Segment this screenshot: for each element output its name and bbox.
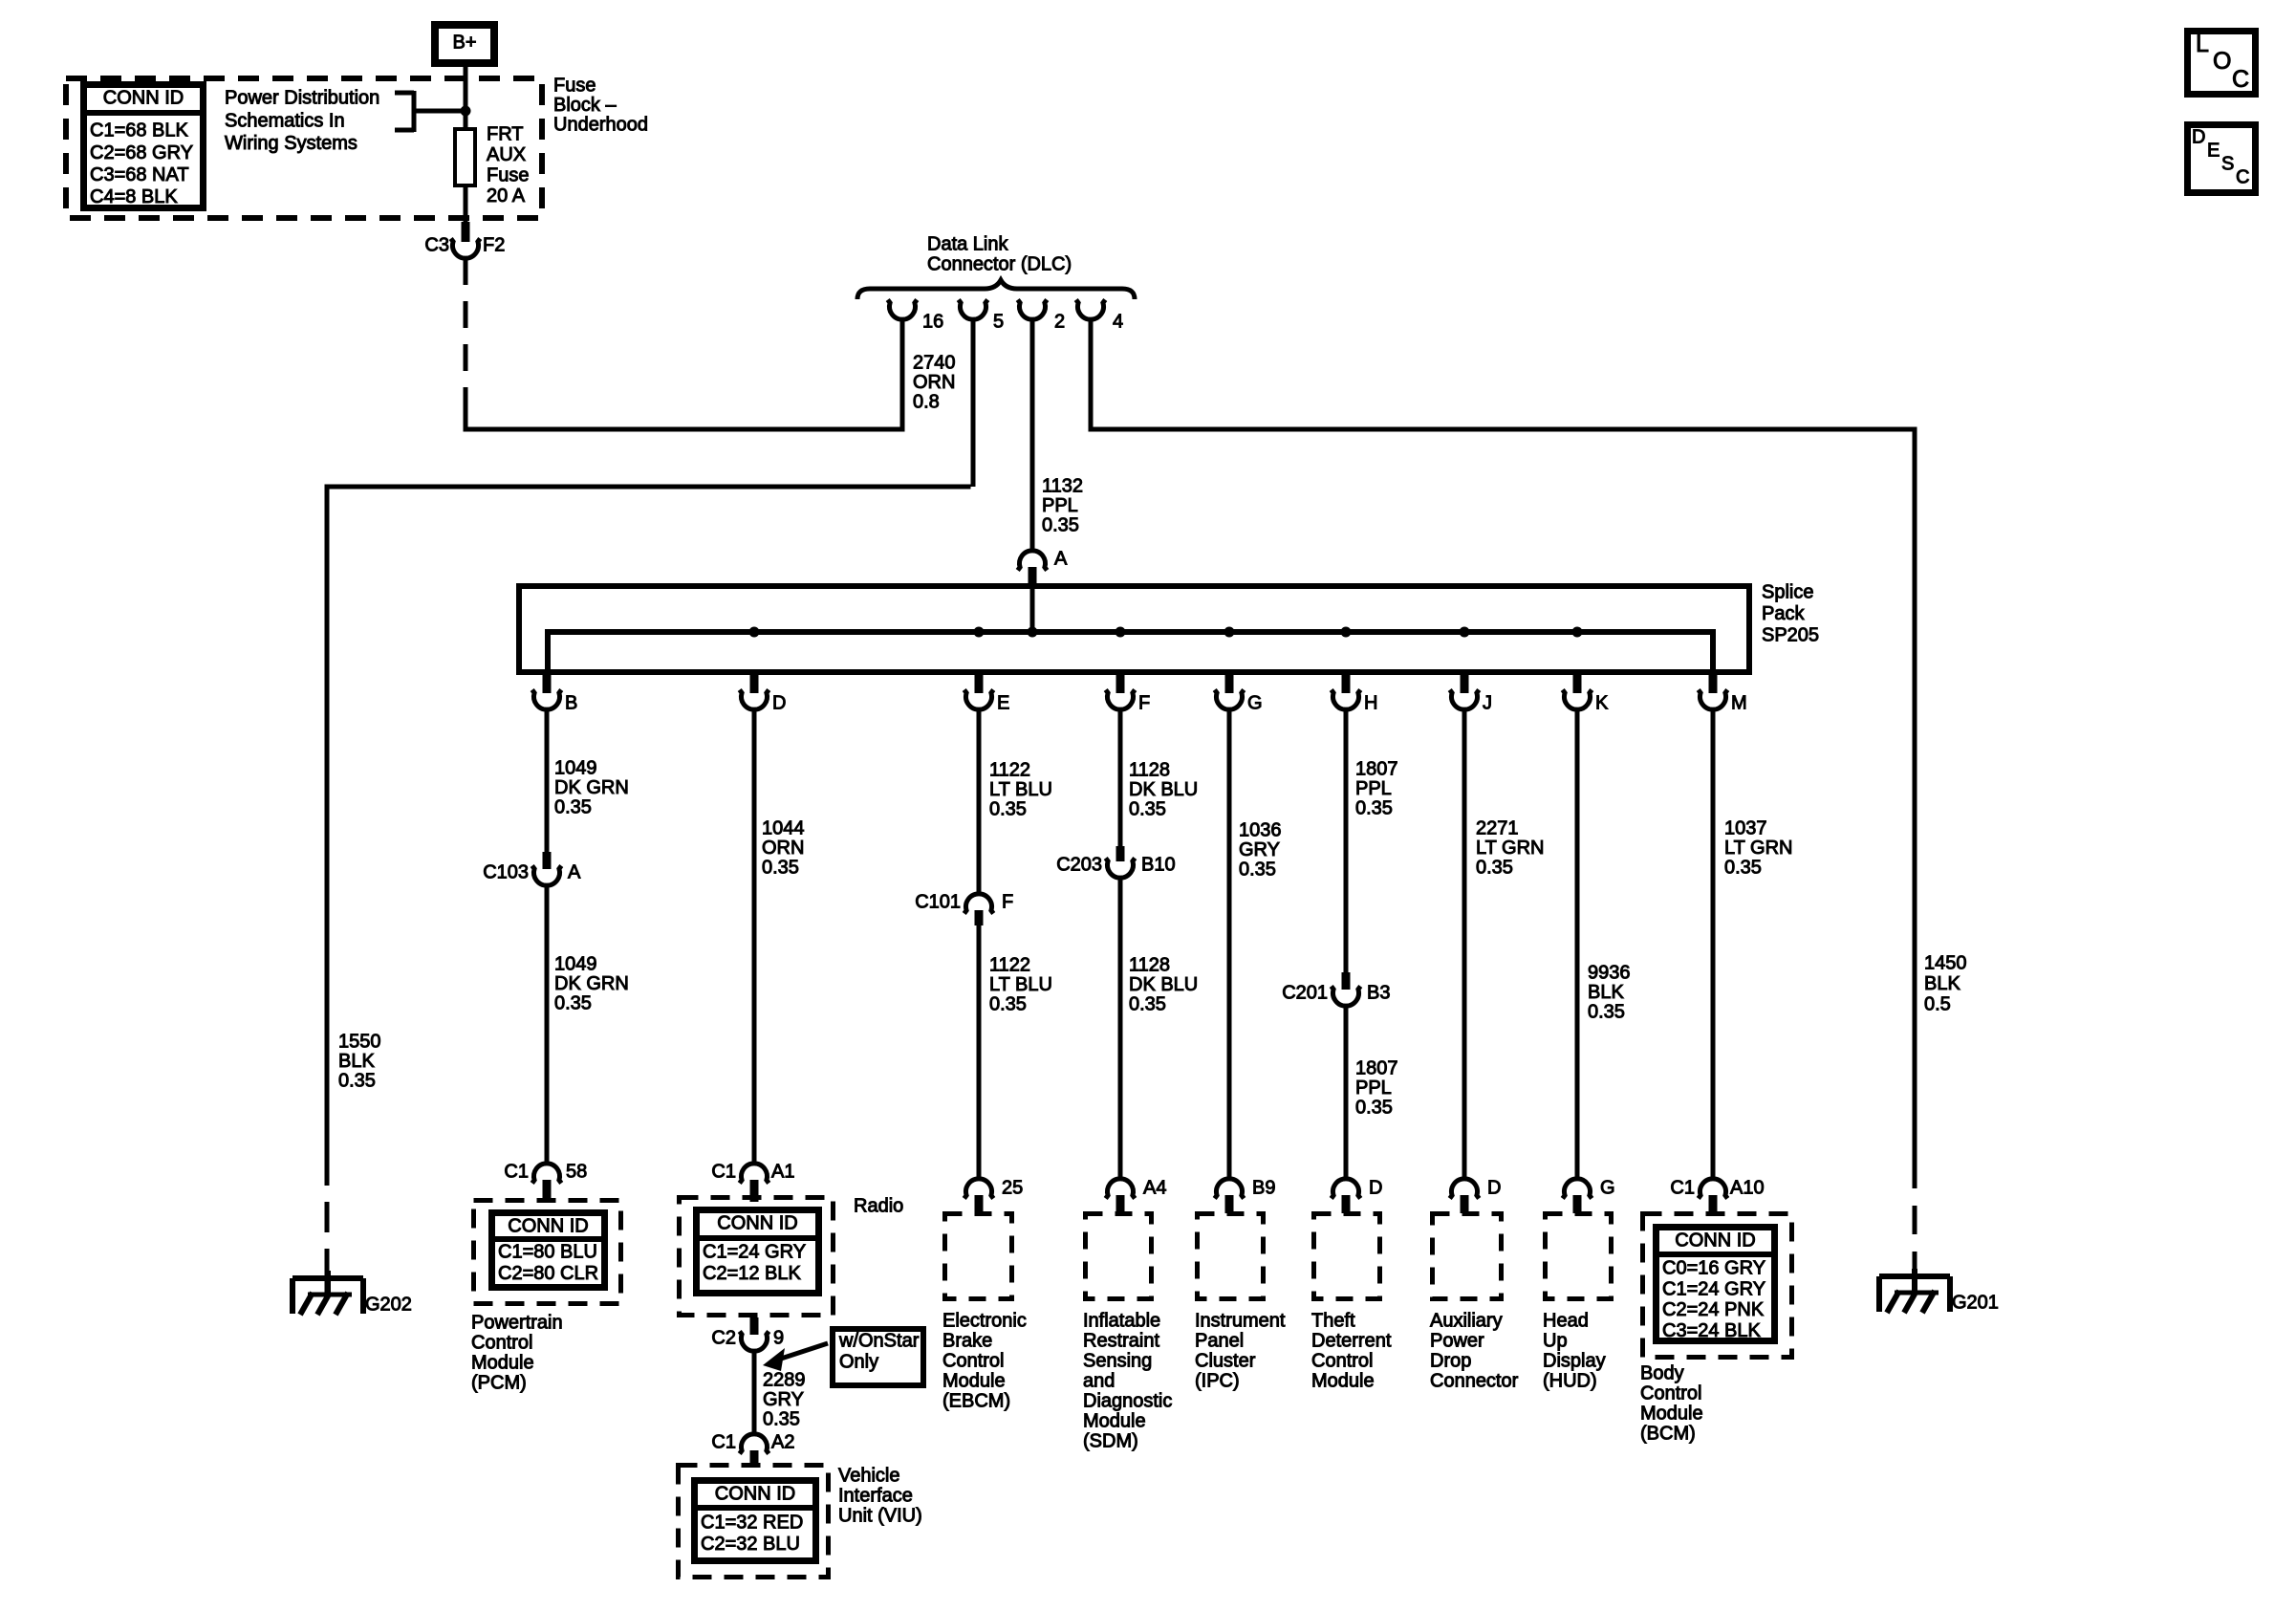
svg-text:Inflatable: Inflatable <box>1083 1311 1160 1332</box>
ground G202 <box>292 1271 412 1316</box>
label pin B9 <box>1252 1178 1275 1199</box>
svg-text:C: C <box>2232 66 2249 93</box>
svg-text:1049: 1049 <box>554 954 597 975</box>
wire 1807 PPL lower (H) <box>1344 1006 1349 1181</box>
svg-text:0.35: 0.35 <box>762 858 799 879</box>
splice pin G <box>1215 672 1245 709</box>
svg-text:H: H <box>1364 693 1377 714</box>
legend box DESC <box>2188 125 2256 193</box>
svg-text:C1: C1 <box>711 1432 736 1453</box>
wire 9936 BLK (K) <box>1575 709 1580 1181</box>
svg-text:F: F <box>1002 892 1013 913</box>
label C203 <box>1056 855 1102 876</box>
connector C1 58 pin at PCM <box>543 1180 552 1202</box>
svg-text:DK BLU: DK BLU <box>1129 974 1198 995</box>
svg-text:Vehicle: Vehicle <box>838 1466 900 1487</box>
label Electronic Brake Control Module (EBCM) <box>942 1311 1027 1412</box>
svg-text:w/OnStar: w/OnStar <box>838 1331 920 1352</box>
svg-text:1550: 1550 <box>338 1032 381 1053</box>
label 1550 BLK 0.35 <box>338 1032 381 1092</box>
svg-text:K: K <box>1595 693 1609 714</box>
svg-text:SP205: SP205 <box>1762 625 1819 646</box>
svg-text:0.35: 0.35 <box>1588 1002 1625 1023</box>
svg-text:B10: B10 <box>1141 855 1176 876</box>
connector C1 A1 cup at Radio <box>740 1164 769 1184</box>
label pin D <box>1369 1178 1382 1199</box>
fuse block underhood dashed enclosure <box>66 78 542 218</box>
svg-text:0.8: 0.8 <box>913 392 940 413</box>
label pin D <box>1487 1178 1501 1199</box>
label C1 at PCM <box>504 1162 529 1183</box>
connector A cup at splice pack <box>1018 551 1048 571</box>
svg-text:A4: A4 <box>1143 1178 1166 1199</box>
CONN ID table BCM <box>1656 1228 1775 1342</box>
module Head Up Display (HUD) dashed box <box>1546 1214 1612 1299</box>
ground G201 <box>1879 1269 1999 1314</box>
svg-text:Diagnostic: Diagnostic <box>1083 1391 1172 1412</box>
svg-text:9936: 9936 <box>1588 963 1631 984</box>
connector A pin <box>1029 567 1037 588</box>
svg-text:Radio: Radio <box>854 1196 903 1217</box>
svg-text:Head: Head <box>1543 1311 1589 1332</box>
svg-text:Theft: Theft <box>1311 1311 1355 1332</box>
connector C2 9 cup at Radio <box>740 1332 769 1352</box>
svg-text:D: D <box>772 693 786 714</box>
svg-text:L: L <box>2196 31 2209 57</box>
svg-text:Wiring Systems: Wiring Systems <box>225 133 357 154</box>
label B3 <box>1367 983 1390 1004</box>
svg-text:1128: 1128 <box>1129 760 1170 781</box>
svg-text:1807: 1807 <box>1355 759 1398 780</box>
svg-text:Cluster: Cluster <box>1195 1351 1256 1372</box>
note box w/OnStar Only <box>833 1329 923 1385</box>
label A at C103 <box>568 862 581 883</box>
connector C101 F cup <box>964 894 994 914</box>
label Fuse Block - Underhood <box>553 76 648 136</box>
svg-text:G201: G201 <box>1952 1293 1999 1314</box>
module VIU dashed box <box>679 1466 829 1578</box>
label 1128 DK BLU 0.35 upper <box>1129 760 1198 820</box>
svg-text:Interface: Interface <box>838 1486 913 1507</box>
svg-text:0.35: 0.35 <box>554 993 592 1014</box>
label Splice Pack SP205 <box>1762 582 1819 646</box>
svg-text:Module: Module <box>1083 1411 1146 1432</box>
svg-text:1037: 1037 <box>1724 818 1767 839</box>
label C103 <box>483 862 529 883</box>
label 1128 DK BLU 0.35 lower <box>1129 955 1198 1015</box>
svg-text:4: 4 <box>1113 312 1123 333</box>
wire 1037 LT GRN (M) <box>1711 709 1716 1181</box>
svg-text:Power: Power <box>1430 1331 1484 1352</box>
svg-text:20 A: 20 A <box>487 185 526 207</box>
svg-text:C4=8 BLK: C4=8 BLK <box>90 186 178 207</box>
wire 1049 DK GRN lower (B) <box>545 885 550 1165</box>
svg-text:Control: Control <box>942 1351 1004 1372</box>
svg-text:C1: C1 <box>711 1162 736 1183</box>
svg-text:S: S <box>2221 154 2234 175</box>
svg-text:A1: A1 <box>771 1162 794 1183</box>
label A1 at Radio <box>771 1162 794 1183</box>
splice pin F <box>1106 672 1136 709</box>
wire B+ to fuse <box>464 67 468 127</box>
wire 1128 DK BLU lower (F) <box>1118 878 1123 1181</box>
label splice pin G <box>1247 693 1263 714</box>
legend box LOC <box>2188 31 2256 94</box>
svg-text:1049: 1049 <box>554 758 597 779</box>
wire 1036 GRY (G) <box>1227 709 1232 1181</box>
svg-text:CONN ID: CONN ID <box>1675 1230 1755 1252</box>
svg-text:CONN ID: CONN ID <box>715 1484 795 1505</box>
module PCM dashed box <box>474 1201 621 1304</box>
svg-text:Panel: Panel <box>1195 1331 1244 1352</box>
label 1049 DK GRN 0.35 lower <box>554 954 629 1014</box>
svg-text:25: 25 <box>1002 1178 1023 1199</box>
wire fuse to connector C3 <box>464 187 468 224</box>
svg-text:B+: B+ <box>452 33 476 54</box>
DLC pin 16 cup <box>888 300 918 320</box>
DLC pin 4 cup <box>1076 300 1106 320</box>
svg-text:C1=68 BLK: C1=68 BLK <box>90 120 189 142</box>
splice bus SP205 <box>548 632 1713 675</box>
connector C203 B10 pin <box>1116 846 1125 861</box>
label F2 <box>483 235 505 256</box>
connector pin D cup at Auxiliary Power Drop Connector <box>1450 1179 1480 1199</box>
svg-text:Control: Control <box>471 1333 532 1354</box>
svg-text:Schematics In: Schematics In <box>225 110 345 131</box>
connector C1 A10 pin at BCM <box>1709 1195 1718 1213</box>
splice pin B <box>532 672 562 709</box>
label C2 at Radio <box>711 1328 736 1349</box>
svg-text:Powertrain: Powertrain <box>471 1313 563 1334</box>
svg-text:E: E <box>997 693 1009 714</box>
svg-text:B: B <box>565 693 577 714</box>
label splice pin F <box>1138 693 1150 714</box>
connector C1 A10 cup at BCM <box>1699 1179 1728 1199</box>
svg-text:(BCM): (BCM) <box>1640 1424 1696 1445</box>
svg-text:Power Distribution: Power Distribution <box>225 88 379 109</box>
wire 2740 ORN to DLC pin 16 <box>464 319 905 431</box>
svg-text:CONN ID: CONN ID <box>508 1216 588 1237</box>
svg-text:LT GRN: LT GRN <box>1476 838 1545 859</box>
label Data Link Connector (DLC) <box>927 234 1072 275</box>
label splice pin H <box>1364 693 1377 714</box>
svg-text:1128: 1128 <box>1129 955 1170 976</box>
svg-text:PPL: PPL <box>1042 495 1078 516</box>
connector C1 A2 pin at VIU <box>750 1450 759 1467</box>
wire 2289 GRY <box>752 1351 757 1436</box>
label Head Up Display (HUD) <box>1543 1311 1606 1392</box>
svg-text:Block –: Block – <box>553 95 617 116</box>
svg-text:C3=24 BLK: C3=24 BLK <box>1662 1320 1762 1341</box>
label 2289 GRY 0.35 <box>763 1370 806 1430</box>
label C1 at BCM <box>1670 1178 1695 1199</box>
svg-text:2289: 2289 <box>763 1370 806 1391</box>
svg-text:DK GRN: DK GRN <box>554 973 629 994</box>
connector C3 F2 pin <box>462 222 470 242</box>
svg-text:Pack: Pack <box>1762 603 1805 624</box>
label Powertrain Control Module (PCM) <box>471 1313 563 1394</box>
svg-text:G: G <box>1600 1178 1615 1199</box>
wire 1450 BLK dashed to G201 <box>1913 1160 1917 1293</box>
label splice pin D <box>772 693 786 714</box>
label 1122 LT BLU 0.35 lower <box>989 955 1052 1015</box>
svg-text:(EBCM): (EBCM) <box>942 1391 1010 1412</box>
connector pin D stub <box>1461 1195 1469 1213</box>
svg-text:B9: B9 <box>1252 1178 1275 1199</box>
label A <box>1054 549 1068 570</box>
svg-text:C201: C201 <box>1282 983 1328 1004</box>
connector C3 F2 cup <box>451 239 481 259</box>
svg-text:Body: Body <box>1640 1363 1684 1384</box>
label A2 at VIU <box>771 1432 794 1453</box>
splice pin M <box>1699 672 1728 709</box>
svg-text:Unit (VIU): Unit (VIU) <box>838 1506 922 1527</box>
junction dot splice H <box>1341 627 1352 638</box>
svg-text:(IPC): (IPC) <box>1195 1371 1240 1392</box>
label pin 4 <box>1113 312 1123 333</box>
label 9 at Radio <box>773 1328 784 1349</box>
label pin 25 <box>1002 1178 1023 1199</box>
svg-text:0.35: 0.35 <box>1476 858 1513 879</box>
svg-text:0.35: 0.35 <box>338 1071 376 1092</box>
module BCM dashed box <box>1643 1214 1792 1358</box>
svg-text:BLK: BLK <box>1924 973 1960 994</box>
svg-text:Splice: Splice <box>1762 582 1813 603</box>
svg-text:A2: A2 <box>771 1432 794 1453</box>
connector pin A4 cup at Inflatable Restraint Sensing and Diagnostic Module (SDM) <box>1106 1179 1136 1199</box>
label 2740 ORN 0.8 <box>913 353 956 413</box>
connector pin G cup at Head Up Display (HUD) <box>1563 1179 1592 1199</box>
connector pin 25 cup at Electronic Brake Control Module (EBCM) <box>964 1179 994 1199</box>
svg-text:Underhood: Underhood <box>553 115 648 136</box>
svg-text:Module: Module <box>942 1371 1006 1392</box>
svg-text:2271: 2271 <box>1476 818 1519 839</box>
label 1450 BLK 0.5 <box>1924 953 1967 1015</box>
svg-text:CONN ID: CONN ID <box>717 1213 797 1234</box>
svg-text:1132: 1132 <box>1042 476 1083 497</box>
svg-text:Connector (DLC): Connector (DLC) <box>927 254 1072 275</box>
svg-text:and: and <box>1083 1371 1115 1392</box>
svg-text:0.35: 0.35 <box>554 797 592 818</box>
svg-text:Control: Control <box>1640 1383 1701 1404</box>
svg-text:Auxiliary: Auxiliary <box>1430 1311 1503 1332</box>
svg-text:A: A <box>568 862 581 883</box>
label C201 <box>1282 983 1328 1004</box>
splice pack SP205 box <box>519 586 1749 672</box>
wire DLC pin 2 1132 PPL <box>1030 319 1035 553</box>
label FRT AUX Fuse 20 A <box>487 124 529 207</box>
svg-text:BLK: BLK <box>1588 982 1624 1003</box>
svg-text:Electronic: Electronic <box>942 1311 1027 1332</box>
svg-text:C1=24 GRY: C1=24 GRY <box>1662 1278 1765 1299</box>
connector C101 F pin <box>975 910 984 925</box>
label 1122 LT BLU 0.35 upper <box>989 760 1052 820</box>
svg-text:Display: Display <box>1543 1351 1606 1372</box>
label pin G <box>1600 1178 1615 1199</box>
svg-text:1036: 1036 <box>1239 820 1282 841</box>
junction dot splice F <box>1116 627 1126 638</box>
svg-text:LT BLU: LT BLU <box>989 779 1052 800</box>
svg-text:Restraint: Restraint <box>1083 1331 1159 1352</box>
svg-text:D: D <box>1487 1178 1501 1199</box>
svg-text:LT GRN: LT GRN <box>1724 838 1793 859</box>
svg-text:C1=32 RED: C1=32 RED <box>701 1513 803 1534</box>
svg-text:1122: 1122 <box>989 760 1030 781</box>
connector C1 A1 pin at Radio <box>750 1180 759 1202</box>
svg-text:C2: C2 <box>711 1328 736 1349</box>
svg-text:C2=12 BLK: C2=12 BLK <box>703 1263 802 1284</box>
label splice pin E <box>997 693 1009 714</box>
svg-text:1807: 1807 <box>1355 1058 1398 1079</box>
CONN ID table PCM <box>491 1213 605 1288</box>
svg-text:ORN: ORN <box>913 372 955 393</box>
label A10 at BCM <box>1730 1178 1765 1199</box>
label 2271 LT GRN 0.35 <box>1476 818 1545 879</box>
svg-text:C2=24 PNK: C2=24 PNK <box>1662 1299 1765 1320</box>
svg-text:C103: C103 <box>483 862 529 883</box>
label 1037 LT GRN 0.35 <box>1724 818 1793 879</box>
label 1807 PPL 0.35 lower <box>1355 1058 1398 1119</box>
svg-text:C1: C1 <box>1670 1178 1695 1199</box>
module Radio dashed box <box>680 1198 834 1316</box>
svg-text:C1=24 GRY: C1=24 GRY <box>703 1242 806 1263</box>
svg-text:C1=80 BLU: C1=80 BLU <box>498 1242 597 1263</box>
wire 1807 PPL upper (H) <box>1344 709 1349 974</box>
svg-text:Brake: Brake <box>942 1331 992 1352</box>
svg-text:58: 58 <box>566 1162 587 1183</box>
svg-text:E: E <box>2207 141 2220 162</box>
svg-text:C0=16 GRY: C0=16 GRY <box>1662 1258 1765 1279</box>
module Electronic Brake Control Module (EBCM) dashed box <box>945 1214 1012 1299</box>
svg-text:PPL: PPL <box>1355 778 1392 799</box>
connector pin D stub <box>1342 1195 1351 1213</box>
svg-text:F: F <box>1138 693 1150 714</box>
svg-text:F2: F2 <box>483 235 505 256</box>
label 9936 BLK 0.35 <box>1588 963 1631 1023</box>
connector pin B9 stub <box>1225 1195 1234 1213</box>
svg-text:0.35: 0.35 <box>989 994 1027 1015</box>
svg-text:DK BLU: DK BLU <box>1129 779 1198 800</box>
svg-text:0.35: 0.35 <box>1129 994 1166 1015</box>
note Power Distribution Schematics In Wiring Systems <box>225 88 379 154</box>
label B10 <box>1141 855 1176 876</box>
arrow w/OnStar to wire <box>763 1343 828 1371</box>
svg-text:0.35: 0.35 <box>1355 798 1393 819</box>
wire 1550 BLK dashed to G202 <box>325 1155 330 1295</box>
svg-text:16: 16 <box>922 312 943 333</box>
label Theft Deterrent Control Module <box>1311 1311 1392 1392</box>
connector pin A4 stub <box>1116 1195 1125 1213</box>
junction dot splice A <box>1028 627 1038 638</box>
label splice pin K <box>1595 693 1609 714</box>
svg-text:0.35: 0.35 <box>989 799 1027 820</box>
svg-text:A10: A10 <box>1730 1178 1765 1199</box>
svg-text:Data Link: Data Link <box>927 234 1008 255</box>
label pin 16 <box>922 312 943 333</box>
brace DLC <box>857 280 1135 299</box>
svg-text:G202: G202 <box>365 1295 412 1316</box>
label 1049 DK GRN 0.35 upper <box>554 758 629 818</box>
label pin A4 <box>1143 1178 1166 1199</box>
B+ battery positive terminal box <box>435 25 494 63</box>
label Instrument Panel Cluster (IPC) <box>1195 1311 1286 1392</box>
svg-text:0.35: 0.35 <box>763 1409 800 1430</box>
connector C201 B3 pin <box>1342 972 1351 990</box>
wire 1044 ORN (D) <box>752 709 757 1165</box>
wire 1122 LT BLU upper (E) <box>977 709 982 895</box>
label C1 at VIU <box>711 1432 736 1453</box>
svg-text:BLK: BLK <box>338 1051 375 1072</box>
svg-text:Deterrent: Deterrent <box>1311 1331 1392 1352</box>
svg-text:D: D <box>1369 1178 1382 1199</box>
DLC pin 5 cup <box>959 300 988 320</box>
svg-text:C1: C1 <box>504 1162 529 1183</box>
svg-text:Module: Module <box>471 1353 534 1374</box>
bracket from note to B+ feed <box>395 91 466 132</box>
connector C103 A pin <box>543 852 552 869</box>
label pin 5 <box>993 312 1004 333</box>
label pin 2 <box>1054 312 1065 333</box>
label 1807 PPL 0.35 upper <box>1355 759 1398 819</box>
svg-text:C3=68 NAT: C3=68 NAT <box>90 164 189 185</box>
svg-text:Control: Control <box>1311 1351 1373 1372</box>
svg-text:A: A <box>1054 549 1068 570</box>
svg-text:CONN ID: CONN ID <box>103 88 184 109</box>
svg-text:PPL: PPL <box>1355 1078 1392 1099</box>
svg-text:5: 5 <box>993 312 1004 333</box>
wire 1128 DK BLU upper (F) <box>1118 709 1123 848</box>
wire 2271 LT GRN (J) <box>1462 709 1467 1181</box>
junction dot on B+ feed <box>461 106 471 117</box>
wire A pin to bus <box>1030 588 1035 632</box>
svg-text:Up: Up <box>1543 1331 1568 1352</box>
connector C201 B3 cup <box>1332 987 1361 1007</box>
svg-text:0.35: 0.35 <box>1129 799 1166 820</box>
wire 1049 DK GRN upper (B) <box>545 709 550 854</box>
CONN ID table VIU <box>694 1481 816 1561</box>
svg-text:2: 2 <box>1054 312 1065 333</box>
connector pin B9 cup at Instrument Panel Cluster (IPC) <box>1215 1179 1245 1199</box>
svg-text:C3: C3 <box>424 235 449 256</box>
svg-text:J: J <box>1483 693 1492 714</box>
wire 1122 LT BLU lower (E) <box>977 924 982 1181</box>
svg-text:Fuse: Fuse <box>553 76 596 97</box>
label C3 <box>424 235 449 256</box>
svg-text:D: D <box>2192 127 2205 148</box>
svg-text:Only: Only <box>839 1352 878 1373</box>
fuse FRT AUX 20A <box>455 129 475 185</box>
module Auxiliary Power Drop Connector dashed box <box>1433 1214 1502 1299</box>
svg-text:(SDM): (SDM) <box>1083 1431 1138 1452</box>
svg-text:1450: 1450 <box>1924 953 1967 974</box>
svg-text:0.35: 0.35 <box>1042 515 1079 536</box>
label splice pin M <box>1731 693 1747 714</box>
svg-text:9: 9 <box>773 1328 784 1349</box>
label 1044 ORN 0.35 <box>762 818 805 879</box>
connector pin 25 stub <box>975 1195 984 1213</box>
svg-text:C101: C101 <box>915 892 961 913</box>
connector C1 58 cup at PCM <box>532 1164 562 1184</box>
CONN ID table fuse block <box>83 85 204 208</box>
label Inflatable Restraint Sensing and Diagnostic Module (SDM) <box>1083 1311 1172 1452</box>
svg-text:Module: Module <box>1640 1404 1703 1425</box>
svg-text:ORN: ORN <box>762 838 804 859</box>
label F at C101 <box>1002 892 1013 913</box>
svg-text:0.35: 0.35 <box>1239 860 1276 881</box>
svg-text:C2=32 BLU: C2=32 BLU <box>701 1534 800 1555</box>
svg-text:(HUD): (HUD) <box>1543 1371 1597 1392</box>
svg-text:GRY: GRY <box>1239 839 1280 860</box>
